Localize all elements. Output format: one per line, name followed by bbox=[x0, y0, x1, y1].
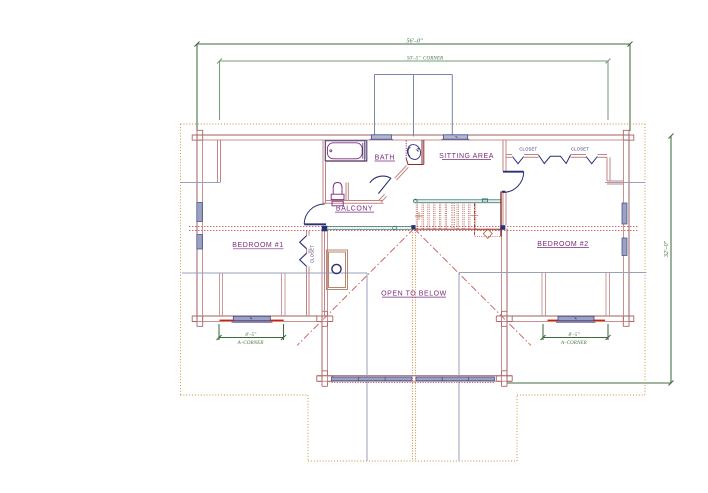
roof overhang dashed outline bbox=[181, 124, 646, 461]
bath angled wall lower bbox=[379, 194, 387, 202]
roof lines below (gray-blue) bbox=[181, 183, 647, 462]
svg-text:BEDROOM #2: BEDROOM #2 bbox=[537, 241, 588, 248]
junction log right-center bbox=[496, 311, 512, 326]
closet bifold door V1 bbox=[512, 157, 523, 164]
closet wall horizontal segments bbox=[506, 154, 512, 156]
ridge diagonal right bbox=[414, 229, 531, 346]
balcony rail bbox=[328, 226, 412, 230]
stair landing lower box bbox=[475, 230, 501, 237]
stair cross marks bbox=[415, 212, 478, 220]
toilet nook wall bbox=[345, 183, 347, 201]
dimension 50'-5" corner bbox=[217, 59, 611, 121]
window top wall bath bbox=[370, 135, 394, 140]
svg-text:BATH: BATH bbox=[375, 155, 395, 162]
window top wall sitting area bbox=[442, 135, 470, 140]
utility cabinet with circle bbox=[327, 250, 348, 290]
stair center dashed pair bbox=[452, 203, 454, 230]
stair down diamond bbox=[483, 229, 492, 239]
window band center south right group bbox=[416, 377, 495, 381]
bath door bbox=[370, 176, 391, 194]
window band center south left group bbox=[332, 377, 413, 381]
closet bifold door W bbox=[539, 155, 571, 164]
stair top rail (teal) bbox=[414, 199, 502, 203]
svg-text:SITTING AREA: SITTING AREA bbox=[439, 153, 494, 160]
ridge diagonal left bbox=[297, 229, 414, 346]
svg-text:A–CORNER: A–CORNER bbox=[237, 340, 265, 346]
room label open to below bbox=[381, 291, 447, 298]
svg-text:50'–5" CORNER: 50'–5" CORNER bbox=[407, 56, 444, 62]
window bedroom1 south bbox=[220, 316, 284, 322]
bedroom1 entry door bbox=[304, 204, 326, 224]
bedroom2 upper door bbox=[503, 172, 524, 193]
svg-text:CLOSET: CLOSET bbox=[310, 245, 315, 263]
bedroom1 closet wall bbox=[306, 231, 308, 236]
tub bottom line bbox=[326, 161, 367, 163]
room label bath bbox=[375, 155, 396, 162]
sink cabinet box bbox=[406, 159, 423, 165]
windows left wall bbox=[197, 203, 203, 222]
bedroom1 closet chevrons bbox=[300, 236, 307, 249]
log end corner crossings bbox=[192, 130, 634, 386]
dimension 8'-5" a-corner left bbox=[217, 324, 287, 340]
svg-text:OPEN TO BELOW: OPEN TO BELOW bbox=[381, 291, 447, 298]
room label balcony bbox=[335, 206, 374, 213]
closet right return wall bbox=[606, 157, 608, 181]
svg-text:BEDROOM #1: BEDROOM #1 bbox=[232, 242, 283, 249]
closet bifold door V3 bbox=[586, 157, 597, 164]
tub left wall bbox=[322, 140, 324, 204]
bottom-right corner log bbox=[623, 316, 634, 326]
dormer above top wall bbox=[375, 75, 453, 137]
bathtub bbox=[325, 141, 367, 161]
balcony bottom wall bbox=[326, 200, 384, 202]
toilet bbox=[331, 183, 344, 206]
dimension 8'-5" a-corner right bbox=[541, 324, 611, 340]
svg-text:56'–0": 56'–0" bbox=[406, 38, 423, 45]
bedroom2 left wall upper bbox=[502, 140, 504, 172]
dimension 32'-0" right bbox=[507, 134, 674, 386]
room label bedroom 1 bbox=[232, 242, 283, 249]
top-right corner log bbox=[623, 130, 634, 140]
svg-text:BALCONY: BALCONY bbox=[336, 206, 373, 213]
svg-text:CLOSET: CLOSET bbox=[519, 147, 537, 152]
exterior walls outer lines bbox=[192, 135, 634, 381]
svg-text:CLOSET: CLOSET bbox=[571, 147, 589, 152]
alcove wall top-left bbox=[217, 140, 219, 182]
svg-text:A–CORNER: A–CORNER bbox=[560, 340, 588, 346]
interior walls bbox=[218, 140, 624, 316]
room label sitting area bbox=[439, 153, 494, 160]
junction log bottom-left of center section bbox=[317, 371, 333, 387]
exterior walls inner lines bbox=[192, 140, 634, 381]
svg-text:8'–5": 8'–5" bbox=[245, 332, 257, 338]
bath sink bbox=[405, 143, 423, 162]
dormer cheek walls left wing bbox=[219, 273, 221, 316]
center dashed line vertical bbox=[413, 230, 416, 462]
rail hatch ticks bbox=[328, 227, 410, 229]
window bedroom2 south bbox=[548, 316, 606, 322]
top-left corner log bbox=[192, 130, 203, 140]
newel posts (navy squares) bbox=[411, 225, 415, 229]
dotted line under window band bbox=[332, 382, 495, 384]
dormer cheek walls right wing bbox=[541, 273, 543, 317]
bottom-left corner log bbox=[192, 316, 203, 326]
windows right wall bbox=[622, 203, 627, 224]
room label bedroom 2 bbox=[537, 241, 589, 248]
centerline dashed horizontal pair bbox=[189, 227, 638, 231]
stairs bbox=[416, 203, 476, 230]
bath angled wall upper bbox=[395, 166, 409, 181]
stair bottom edge bbox=[415, 228, 501, 230]
junction log left-center bbox=[317, 311, 333, 326]
dimension 56'-0" top bbox=[195, 42, 633, 132]
junction log bottom-right of center section bbox=[496, 371, 512, 387]
tub right wall bbox=[364, 140, 366, 162]
stair right wall bbox=[500, 192, 502, 237]
svg-text:8'–5": 8'–5" bbox=[568, 332, 580, 338]
svg-text:32'–0": 32'–0" bbox=[663, 240, 670, 258]
